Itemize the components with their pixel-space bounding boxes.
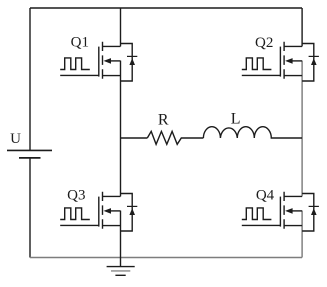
svg-text:Q2: Q2 — [255, 35, 273, 51]
svg-text:L: L — [231, 110, 241, 127]
svg-text:U: U — [10, 131, 21, 147]
svg-text:Q3: Q3 — [67, 187, 85, 203]
svg-text:Q1: Q1 — [71, 35, 89, 51]
svg-text:R: R — [158, 112, 169, 129]
svg-text:Q4: Q4 — [256, 188, 275, 204]
